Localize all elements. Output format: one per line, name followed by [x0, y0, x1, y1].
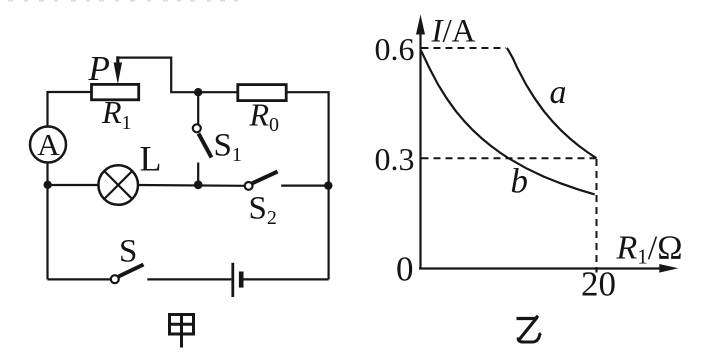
node junction right — [324, 181, 332, 189]
curve a — [507, 48, 597, 158]
dashed guide x=20 — [596, 159, 598, 268]
switch S2 — [245, 172, 325, 190]
svg-text:0.3: 0.3 — [375, 141, 415, 177]
label 甲 (jia) — [170, 315, 194, 348]
tick x=20 — [595, 269, 597, 273]
switch S — [111, 265, 144, 284]
svg-text:S2: S2 — [249, 191, 277, 230]
svg-text:A: A — [37, 127, 60, 162]
wire left rail top segment — [48, 92, 92, 127]
svg-text:0.6: 0.6 — [375, 31, 415, 67]
svg-text:S: S — [119, 233, 137, 269]
rheostat R1 body — [92, 84, 139, 99]
dashed guide 0.3 — [422, 157, 597, 159]
svg-text:20: 20 — [581, 265, 616, 304]
svg-text:0: 0 — [396, 250, 414, 289]
x axis — [419, 264, 678, 273]
svg-text:P: P — [88, 49, 110, 88]
svg-text:a: a — [550, 74, 567, 111]
curve b — [421, 51, 595, 195]
wire middle left — [48, 184, 98, 186]
wire slider to top node — [118, 58, 238, 93]
wire bottom left — [48, 278, 111, 280]
wire S1 upper lead — [197, 92, 199, 124]
node junction left — [44, 181, 52, 189]
y axis — [416, 15, 425, 269]
ammeter U A — [30, 127, 66, 163]
dashed guide 0.6 — [422, 47, 507, 49]
rheostat slider arrow P — [114, 56, 122, 84]
svg-text:S1: S1 — [214, 128, 242, 167]
node junction middle — [194, 180, 203, 189]
node junction top — [194, 88, 202, 96]
switch S1 — [193, 124, 212, 185]
wire lamp to S2 — [138, 184, 245, 187]
lamp L — [98, 165, 138, 205]
wire R0 to right rail — [286, 92, 328, 279]
svg-text:b: b — [511, 162, 529, 201]
label 乙 (yi) — [517, 316, 542, 342]
svg-text:L: L — [140, 139, 162, 179]
faint cut-off text remnants top edge — [8, 0, 238, 2]
wire S to battery — [147, 278, 231, 280]
svg-text:R1/Ω: R1/Ω — [616, 230, 683, 269]
wire battery to right rail — [244, 278, 329, 280]
svg-text:R0: R0 — [249, 97, 280, 137]
battery cell — [233, 263, 241, 297]
svg-text:I/A: I/A — [431, 14, 476, 50]
resistor R0 body — [238, 85, 286, 101]
wire left rail lower segment — [46, 163, 48, 280]
